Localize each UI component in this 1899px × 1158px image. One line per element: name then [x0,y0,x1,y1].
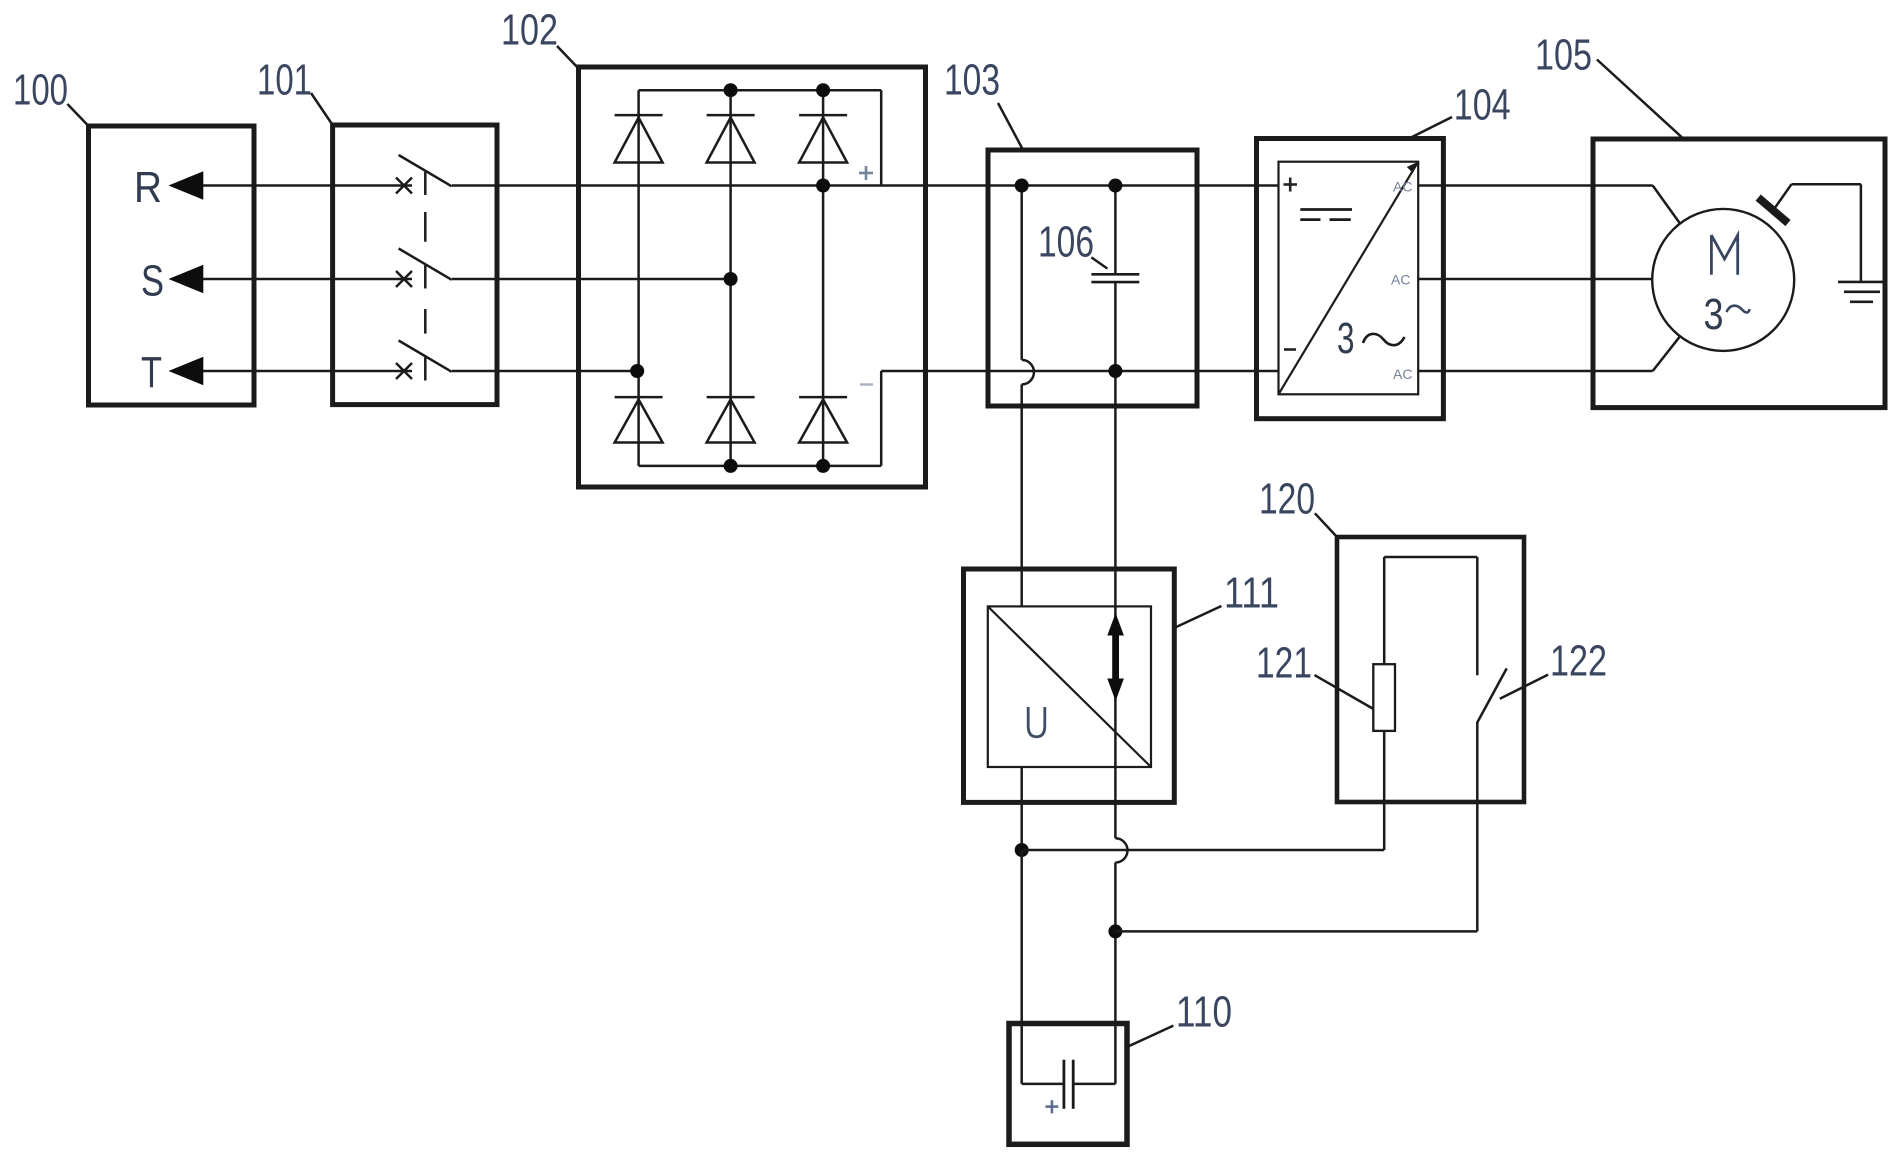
label 3 phase AC symbol [1337,314,1355,363]
shaft brush bar [1758,198,1788,224]
converter diagonal [988,606,1151,767]
wire DC link left vertical upper [1020,186,1023,360]
svg-text:110: 110 [1176,988,1232,1037]
junction dot top bus right [1108,179,1122,193]
leader line 121 [1315,675,1373,708]
plus mark inverter input [1284,178,1298,192]
switch T blade [399,341,452,372]
wire resistor branch upper [1383,557,1386,664]
wire DC link left vertical lower [1020,384,1023,606]
leader line 101 [311,93,333,125]
svg-text:111: 111 [1224,569,1279,618]
diode D3 upper leg3 [799,115,847,162]
bidirectional arrow [1107,613,1124,701]
diode D2 upper leg2 [707,115,755,162]
label S phase [141,257,164,306]
leader line 100 [67,104,88,126]
block 105 motor box [1593,139,1885,408]
svg-text:102: 102 [501,6,558,55]
switch S contact x [396,271,412,287]
wire rectifier top-right step [880,90,883,185]
wire rectifier bottom rail [639,465,882,468]
capacitor C106 plates [1091,274,1139,282]
block 110 battery box [1009,1024,1127,1145]
junction dot S phase leg2 [724,272,738,286]
junction dot top bus left [1015,179,1029,193]
junction dot R phase leg3 [816,179,830,193]
svg-text:103: 103 [944,56,1000,105]
diode D5 lower leg2 [707,397,755,442]
motor letter M [1711,235,1737,275]
svg-text:104: 104 [1454,81,1511,130]
svg-text:3: 3 [1704,290,1724,339]
label 103 [944,56,1000,105]
wire hop over minus bus [1022,360,1034,385]
svg-text:T: T [141,348,162,397]
label 104 [1454,81,1511,130]
svg-text:122: 122 [1550,637,1607,686]
wire S phase from arrow to switch [203,278,412,281]
wire battery left vertical [1020,850,1023,1084]
arrow R [169,171,204,199]
svg-text:121: 121 [1256,639,1312,688]
label 106 [1038,218,1094,267]
wire node B horizontal to switch branch [1115,930,1477,933]
AC pin label top [1393,179,1412,195]
arrow S [169,265,204,293]
block 104 inverter outer box [1257,139,1444,419]
leader line 111 [1176,606,1221,627]
switch R blade [399,155,452,186]
switch T contact x [396,363,412,379]
switch R contact x [396,178,412,194]
motor M circle [1652,209,1794,351]
junction dot T phase leg1 [630,364,644,378]
AC pin label bottom [1393,366,1412,382]
wire DC link right vertical upper [1114,186,1117,275]
wire battery right horizontal [1073,1083,1115,1086]
block 101 breaker box [333,125,497,405]
motor tilde [1727,306,1750,313]
label 105 [1535,31,1592,80]
label 110 [1176,988,1232,1037]
wire resistor branch lower [1383,731,1386,850]
wire T phase switch to rectifier leg 1 [452,370,637,373]
tilde of 3-phase symbol [1363,334,1405,345]
junction dot left below 111 [1015,843,1029,857]
switch S linkage tick [424,265,427,288]
resistor R121 [1373,664,1395,731]
plus polarity mark rectifier output [859,166,873,180]
svg-text:120: 120 [1259,475,1315,524]
leader line 102 [557,46,579,69]
wire brake loop top [1384,556,1477,559]
label T phase [141,348,162,397]
linkage dash R-S [424,212,427,242]
wire rectifier leg 1 vertical [637,90,640,466]
leader line 105 [1597,60,1684,140]
wire node A horizontal to resistor branch [1022,849,1384,852]
svg-text:100: 100 [13,66,68,115]
label 122 [1550,637,1607,686]
wire motor lead top diagonal [1653,186,1680,224]
wire 111 right vertical below hop [1114,863,1117,1084]
block 102 rectifier box [579,67,926,487]
svg-text:AC: AC [1393,179,1412,195]
wire T phase from arrow to switch [203,370,412,373]
junction dot bottom bus cap [1108,364,1122,378]
block 103 DC link box [988,150,1197,406]
motor label 3 [1704,290,1724,339]
wire battery left horizontal [1022,1083,1064,1086]
block 120 brake unit box [1337,537,1524,802]
wire 111 left vertical below [1020,767,1023,850]
wire S phase switch to rectifier leg 2 [452,278,731,281]
letter U [1028,707,1045,737]
junction dot bottom rail leg3 [816,459,830,473]
AC pin label mid [1391,272,1410,288]
label 101 [257,56,312,105]
wire rectifier leg 3 vertical [822,90,825,466]
leader line 120 [1315,513,1337,537]
svg-text:S: S [141,257,164,306]
label 111 [1224,569,1279,618]
block 111 converter outer box [964,569,1175,802]
junction dot top rail leg2 [724,83,738,97]
DC symbol solid line [1300,208,1352,211]
wire DC link right vertical mid [1114,282,1117,838]
minus mark inverter input [1284,348,1296,351]
block 104 inverter inner box [1279,162,1419,395]
inverter diagonal [1279,162,1419,395]
wire rectifier top rail [639,89,882,92]
svg-text:R: R [134,163,162,212]
wire R phase from arrow to switch [203,184,412,187]
block 111 converter inner box [988,606,1151,767]
linkage dash S-T [424,309,427,334]
wire ground vertical [1860,184,1863,282]
arrow T [169,357,204,385]
leader line 122 [1500,675,1548,699]
svg-text:101: 101 [257,56,312,105]
inverter diagonal arrowhead [1407,162,1418,173]
wire switch branch lower [1476,722,1479,931]
wire inverter AC output top [1418,184,1653,187]
DC symbol dashed line [1300,218,1351,221]
wire - DC bus (rectifier to inverter) [881,370,1278,373]
minus polarity mark rectifier output [860,383,873,385]
label 120 [1259,475,1315,524]
leader line 110 [1127,1026,1173,1047]
plus polarity mark battery [1046,1100,1059,1113]
leader line 103 [998,103,1022,148]
wire brush to ground diagonal [1773,184,1791,210]
wire hop right vertical over node A [1115,838,1127,862]
switch T linkage tick [424,357,427,380]
label R phase [134,163,162,212]
diode D4 lower leg1 [615,397,663,442]
wire inverter AC output bottom [1418,370,1653,373]
switch R linkage tick [424,172,427,195]
junction dot top rail leg3 [816,83,830,97]
wire switch branch upper [1476,557,1479,675]
svg-text:106: 106 [1038,218,1094,267]
label 121 [1256,639,1312,688]
ground symbol [1838,282,1884,302]
switch 122 blade [1477,668,1507,723]
wire R phase / + DC bus (switch to inverter) [452,184,1279,187]
leader line 106 [1091,257,1107,268]
label 102 [501,6,558,55]
svg-text:105: 105 [1535,31,1592,80]
leader line 104 [1410,117,1452,138]
wire rectifier leg 2 vertical [729,90,732,466]
switch S blade [399,249,452,280]
capacitor C110 plates [1064,1060,1073,1109]
junction dot right below 111 [1108,924,1122,938]
wire rectifier bottom-right step [880,371,883,466]
svg-text:AC: AC [1393,366,1412,382]
svg-text:3: 3 [1337,314,1355,363]
svg-text:AC: AC [1391,272,1410,288]
junction dot bottom rail leg2 [724,459,738,473]
label 100 [13,66,68,115]
wire motor lead bottom diagonal [1653,336,1680,371]
diode D1 upper leg1 [615,115,663,162]
block 100 grid box [89,126,255,405]
diode D6 lower leg3 [799,397,847,442]
wire inverter AC output mid [1418,278,1652,281]
wire brush horizontal [1792,183,1861,186]
